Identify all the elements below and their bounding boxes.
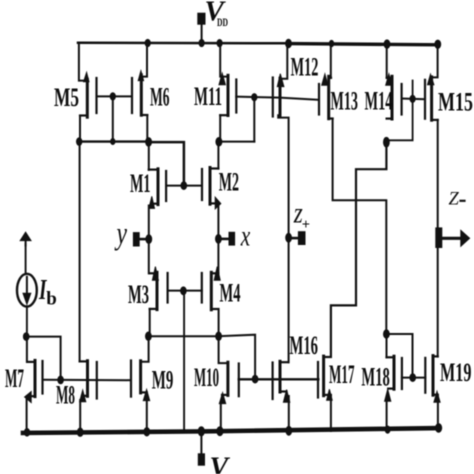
transistor M2 source arrow — [215, 197, 221, 209]
gate wire M5-M6 — [97, 95, 133, 97]
junction M18-M19 gate tie — [410, 374, 416, 382]
VDD terminal stub — [201, 24, 203, 43]
transistor M15 source arrow — [428, 74, 434, 85]
junction M11 gate tie — [252, 94, 257, 101]
junction cascode gate bus — [252, 375, 258, 383]
terminal y stub — [139, 238, 147, 241]
wire M5/M6 gate down to node A — [112, 96, 114, 141]
power rail VSS segment left — [23, 431, 201, 433]
wire VDD rail to M11 source — [220, 43, 228, 77]
transistor M7 — [27, 360, 43, 396]
transistor M15 — [425, 77, 438, 120]
transistor M7 source arrow — [25, 392, 32, 403]
wire VDD rail to M6 source — [141, 43, 147, 77]
junction gate-drain tie — [111, 139, 115, 145]
junction Ib to M7 — [23, 333, 29, 341]
transistor M1 — [158, 169, 166, 205]
junction on VDD rail at M11 column — [217, 40, 222, 47]
junction node B (x node top) — [216, 138, 222, 147]
transistor M3 — [150, 272, 168, 309]
transistor M4 — [202, 272, 219, 310]
svg-text:M2: M2 — [219, 167, 239, 197]
wire y-node link to M1/M2 gates — [149, 142, 184, 185]
junction node A left — [77, 138, 82, 146]
wire M14 gate tie down to drain — [386, 81, 412, 141]
transistor M9 source arrow — [143, 390, 149, 401]
wire M14 drain down-left path — [331, 144, 387, 357]
VDD terminal square — [198, 13, 205, 24]
gate wire M18-M19 — [402, 377, 425, 379]
junction M5-M6 gate — [110, 93, 115, 100]
transistor M11 — [220, 75, 236, 115]
svg-text:V: V — [210, 453, 231, 474]
wire M2 source stub — [210, 202, 216, 204]
wire M8 drain up to node A — [79, 142, 81, 362]
transistor M3 source arrow — [152, 267, 158, 281]
transistor M19 source arrow — [434, 391, 440, 402]
wire VDD rail to M14 source — [386, 44, 388, 78]
junction y terminal — [146, 235, 152, 244]
wire M17 source down to VSS — [330, 396, 332, 431]
svg-text:Z: Z — [449, 190, 460, 210]
terminal Z- arrow — [461, 230, 470, 246]
junction on VDD rail at M13 column — [329, 40, 333, 46]
wire y column to M3 drain — [148, 239, 150, 273]
svg-text:M11: M11 — [194, 81, 222, 111]
gate wire M1-M2 — [166, 185, 202, 187]
wire M7 drain up — [26, 337, 28, 362]
junction VSS at M10 — [217, 427, 223, 436]
Z- port thick bar — [436, 228, 442, 248]
svg-text:M16: M16 — [290, 330, 319, 360]
current source Ib circle — [17, 274, 37, 307]
transistor M12 source arrow — [277, 74, 284, 87]
transistor M1 source arrow — [149, 196, 155, 208]
junction M14 gate tie — [410, 95, 415, 102]
wire VDD rail to M12 source — [282, 43, 288, 79]
svg-text:DD: DD — [217, 15, 228, 29]
transistor M10 source arrow — [219, 393, 225, 404]
junction M13 drain node — [384, 330, 390, 338]
svg-text:M3: M3 — [128, 279, 149, 309]
wire M18 source down to VSS — [386, 397, 388, 430]
wire M15 drain to Z- column — [437, 120, 439, 238]
junction M3 source node — [146, 332, 152, 340]
node A horizontal wire — [79, 140, 149, 142]
VSS terminal square — [198, 454, 204, 465]
terminal x stub — [221, 238, 230, 241]
svg-text:M15: M15 — [438, 87, 473, 117]
transistor M4 source arrow — [214, 267, 220, 281]
wire VDD rail to M5 source — [79, 43, 87, 81]
junction z+ terminal — [286, 233, 292, 242]
wire M11 gate tie to node B — [219, 141, 255, 143]
svg-text:M6: M6 — [150, 82, 170, 112]
junction on VDD rail at M12 column — [286, 39, 292, 47]
svg-text:y: y — [114, 215, 127, 251]
wire M11 gate tie down — [253, 97, 255, 141]
wire M7 source down to VSS — [26, 397, 28, 432]
wire M2 drain up to node B — [217, 142, 219, 169]
junction VSS at M9 — [144, 428, 150, 436]
junction VSS at M8 — [77, 428, 83, 436]
gate wire M11-M12-M13 — [236, 97, 318, 100]
junction on VDD rail at M15 column — [435, 40, 441, 48]
junction M14 drain node — [384, 137, 390, 147]
terminal Z- stub — [441, 237, 462, 240]
transistor M5 — [80, 78, 97, 117]
wire M13 drain path — [333, 119, 387, 334]
terminal x square — [229, 232, 235, 245]
wire VDD rail to M15 source — [432, 44, 438, 77]
transistor M19 — [425, 356, 438, 396]
transistor M10 — [222, 362, 239, 396]
wire x column to M4 drain — [217, 239, 219, 274]
wire M6 drain down to node A — [146, 115, 148, 142]
gate bus M7-M8-M9 — [43, 379, 132, 382]
wire M3-M4 source link — [148, 335, 218, 337]
junction on VDD rail at M6 column — [145, 39, 150, 46]
wire M2 source down to x terminal — [217, 206, 219, 239]
junction gate bus at Ib — [58, 376, 64, 384]
svg-text:M19: M19 — [440, 357, 472, 387]
wire M10 source down to VSS — [220, 402, 222, 432]
svg-text:M18: M18 — [361, 361, 390, 391]
transistor M17 — [318, 356, 331, 397]
transistor M8 — [80, 361, 97, 399]
svg-text:M9: M9 — [152, 365, 174, 395]
svg-text:M7: M7 — [5, 363, 24, 393]
transistor M16 — [273, 361, 289, 399]
wire M4 source down — [218, 309, 220, 336]
gate wire M14-M15 — [402, 98, 425, 101]
transistor M11 source arrow — [219, 73, 225, 85]
junction M3-M4 gate — [181, 287, 187, 295]
wire M1 source down to y terminal — [148, 206, 150, 240]
label Z- subscript — [461, 200, 465, 202]
transistor M17 source arrow — [327, 389, 333, 400]
terminal z+ stub — [291, 237, 300, 240]
junction on VDD rail at VDD stub — [199, 39, 204, 46]
junction VSS at M18 — [385, 426, 390, 433]
svg-text:M1: M1 — [130, 168, 151, 198]
power rail VDD segment right — [289, 44, 438, 45]
Ib terminal arrow — [20, 232, 31, 240]
transistor M13 — [319, 76, 333, 118]
transistor M9 — [131, 361, 147, 397]
transistor M5 source arrow — [84, 72, 89, 81]
wire M8 source down to VSS — [79, 400, 81, 432]
transistor M14 — [387, 76, 402, 119]
wire Ib bottom — [26, 306, 28, 336]
wire M16 source down to VSS — [288, 396, 290, 431]
VSS terminal stub — [200, 433, 202, 455]
wire M1 drain stub — [149, 169, 158, 171]
junction M1-M2 gate — [181, 182, 187, 190]
transistor M2 — [202, 168, 218, 205]
terminal z+ square — [298, 232, 305, 245]
svg-text:M14: M14 — [365, 86, 393, 116]
wire y column to M9 drain — [141, 336, 149, 362]
transistor M16 source arrow — [283, 390, 289, 403]
wire M12 drain to z+ column — [278, 115, 288, 238]
junction x terminal — [216, 235, 222, 244]
terminal y square — [133, 233, 139, 246]
Ib terminal stem — [25, 240, 27, 246]
wire M4 source node to cascode gate bus — [219, 335, 256, 379]
svg-text:M13: M13 — [331, 86, 359, 116]
wire M6 drain stub — [141, 114, 147, 116]
transistor M6 source arrow — [138, 71, 143, 81]
wire Ib to M7/M8 gate bus — [26, 337, 60, 380]
wire M13 drain node to M18/M19 gates — [386, 334, 412, 378]
junction VSS at M16 — [286, 426, 292, 435]
transistor M8 source arrow — [80, 390, 86, 402]
transistor M18 — [387, 356, 402, 389]
junction on VDD rail at M14 column — [384, 40, 390, 48]
current source Ib inner arrowhead — [23, 293, 31, 304]
wire x column to M10 drain — [219, 336, 228, 363]
svg-text:M4: M4 — [220, 278, 241, 308]
junction VSS at M19 — [436, 424, 442, 433]
power rail VDD segment left — [78, 42, 289, 45]
junction VSS at M7 — [24, 429, 29, 437]
gate bus M10-M16-M17 — [239, 378, 318, 380]
junction M4 source node — [216, 332, 222, 340]
transistor M18 source arrow — [385, 389, 391, 401]
wire M3/M4 gate down to VSS rail — [183, 291, 185, 431]
svg-text:+: + — [302, 217, 310, 233]
transistor M14 source arrow — [386, 74, 392, 85]
transistor M6 — [132, 75, 141, 115]
wire y column upper — [148, 142, 150, 170]
wire M19 source down to VSS — [437, 396, 439, 429]
wire M9 source down to VSS — [146, 397, 148, 432]
transistor M12 — [273, 78, 280, 117]
junction node A right (y node) — [146, 138, 152, 147]
junction VSS at VSS stub — [198, 427, 204, 436]
wire M18 drain up — [386, 334, 388, 357]
svg-text:M17: M17 — [329, 359, 355, 389]
wire Z- column to M19 drain — [437, 248, 439, 357]
svg-text:M8: M8 — [56, 380, 75, 410]
wire z+ column to M16 drain — [288, 238, 290, 362]
wire Ib top — [25, 244, 27, 274]
wire VDD rail to M13 source — [330, 44, 332, 79]
svg-text:x: x — [240, 220, 251, 253]
wire M5 drain down to node A — [79, 116, 81, 142]
wire M1 source stub — [151, 203, 158, 205]
gate wire M3-M4 — [168, 290, 202, 292]
svg-text:M5: M5 — [54, 82, 79, 112]
wire M11 drain down to node B — [219, 115, 221, 141]
wire M3 source down — [149, 309, 151, 336]
svg-text:M10: M10 — [194, 362, 219, 392]
svg-text:b: b — [46, 289, 57, 310]
power rail VSS segment right — [201, 428, 438, 431]
svg-text:M12: M12 — [291, 51, 319, 81]
transistor M13 source arrow — [322, 74, 328, 85]
current source Ib inner arrow stem — [26, 277, 28, 295]
